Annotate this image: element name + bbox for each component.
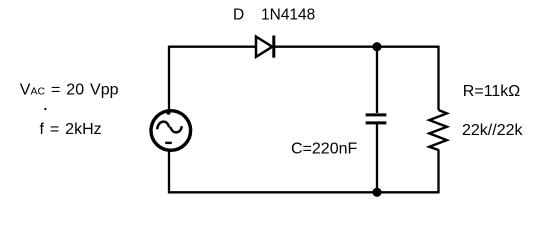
- wire: source bottom lead (left vertical lower): [168, 150, 170, 193]
- svg-text:R=11kΩ: R=11kΩ: [463, 83, 521, 100]
- wire: source top lead (left vertical upper): [168, 46, 170, 112]
- node: top junction (diode cathode / C / R): [372, 42, 381, 51]
- svg-text:22k//22k: 22k//22k: [462, 122, 523, 139]
- svg-text:1N4148: 1N4148: [261, 6, 315, 23]
- wire: resistor branch lower segment: [437, 150, 439, 194]
- diode D 1N4148: [256, 36, 274, 58]
- wire: capacitor branch upper segment: [376, 47, 378, 113]
- stray dot mark: [44, 108, 46, 110]
- svg-text:D: D: [233, 6, 244, 23]
- capacitor C: [366, 115, 387, 123]
- wire: top rail from source to resistor branch: [169, 46, 439, 48]
- svg-text:C=220nF: C=220nF: [291, 141, 357, 158]
- svg-text:f = 2kHz: f = 2kHz: [40, 121, 102, 138]
- AC voltage source V1: [151, 111, 191, 151]
- node: bottom junction (C / bottom rail): [372, 188, 381, 197]
- resistor R: [429, 110, 447, 150]
- wire: resistor branch upper segment: [437, 46, 439, 110]
- wire: capacitor branch lower segment: [376, 124, 378, 192]
- wire: bottom rail: [169, 191, 439, 193]
- svg-text:VAC = 20 Vpp: VAC = 20 Vpp: [20, 82, 119, 99]
